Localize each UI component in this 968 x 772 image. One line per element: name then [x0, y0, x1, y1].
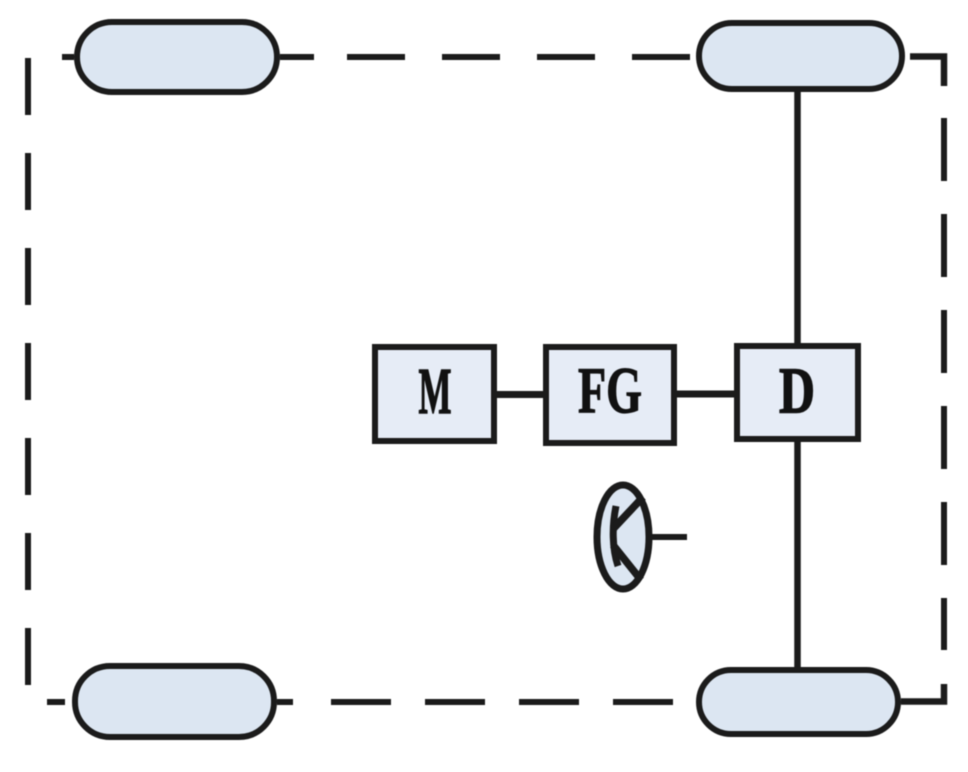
svg-text:FG: FG — [578, 355, 642, 428]
wheel front-left — [77, 22, 277, 92]
chassis outline bottom-right corner — [901, 684, 944, 702]
wheel rear-left — [75, 666, 274, 737]
wire M to FG — [494, 391, 546, 398]
svg-text:D: D — [779, 355, 815, 428]
steering wheel — [597, 485, 649, 589]
wheel rear-right — [699, 670, 898, 734]
chassis outline bottom dashed line — [47, 699, 677, 705]
chassis outline left dashed line — [25, 58, 31, 686]
chassis outline top-right corner — [910, 57, 944, 87]
wire rear axle upper segment — [794, 88, 801, 346]
gearbox block FG — [546, 347, 674, 443]
wheel front-right — [699, 23, 902, 89]
wire FG to D — [674, 391, 738, 398]
steering column — [651, 534, 687, 540]
motor block M — [375, 347, 494, 441]
chassis outline right dashed line — [941, 118, 947, 650]
svg-text:M: M — [419, 355, 452, 428]
wire rear axle lower segment — [794, 440, 801, 670]
chassis outline top dashed line — [62, 54, 691, 60]
differential block D — [737, 346, 858, 439]
